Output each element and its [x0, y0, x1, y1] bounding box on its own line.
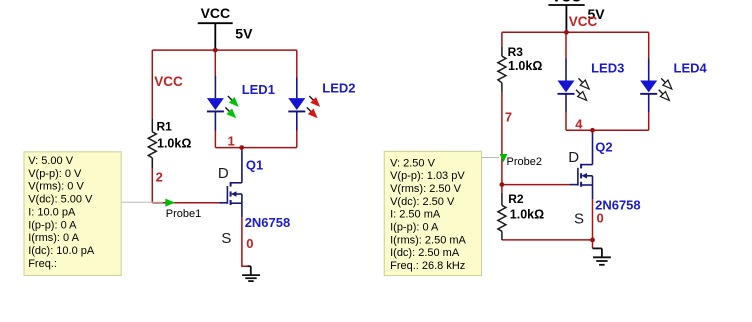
svg-text:Freq.:: Freq.:: [28, 258, 57, 270]
svg-text:Probe2: Probe2: [507, 156, 542, 168]
svg-text:0: 0: [246, 236, 253, 251]
svg-text:I(dc): 10.0 pA: I(dc): 10.0 pA: [28, 245, 95, 257]
svg-text:VCC: VCC: [201, 5, 231, 21]
svg-text:VCC: VCC: [552, 0, 582, 5]
svg-text:S: S: [574, 210, 584, 227]
svg-text:LED2: LED2: [322, 81, 355, 96]
svg-text:V(p-p): 1.03 pV: V(p-p): 1.03 pV: [390, 170, 465, 182]
svg-text:V: 2.50 V: V: 2.50 V: [390, 157, 436, 169]
svg-text:S: S: [221, 230, 231, 247]
svg-text:1.0kΩ: 1.0kΩ: [508, 59, 542, 73]
svg-text:LED1: LED1: [242, 82, 275, 97]
svg-text:I(p-p): 0 A: I(p-p): 0 A: [390, 222, 439, 234]
svg-text:7: 7: [505, 110, 512, 125]
svg-text:LED3: LED3: [591, 60, 624, 75]
svg-text:I: 2.50 mA: I: 2.50 mA: [390, 209, 441, 221]
svg-text:I(rms): 2.50 mA: I(rms): 2.50 mA: [390, 234, 466, 246]
svg-text:VCC: VCC: [154, 74, 183, 89]
svg-text:Q2: Q2: [595, 140, 612, 155]
svg-text:2N6758: 2N6758: [245, 215, 291, 230]
svg-text:LED4: LED4: [674, 60, 708, 75]
svg-text:I(dc): 2.50 mA: I(dc): 2.50 mA: [390, 247, 460, 259]
svg-text:0: 0: [597, 211, 604, 226]
svg-text:Q1: Q1: [246, 158, 263, 173]
svg-text:D: D: [218, 165, 229, 182]
svg-text:I: 10.0 pA: I: 10.0 pA: [28, 206, 76, 218]
svg-text:V(p-p): 0 V: V(p-p): 0 V: [28, 168, 82, 180]
svg-text:2: 2: [156, 169, 163, 184]
svg-text:D: D: [568, 149, 579, 166]
svg-text:V(rms): 2.50 V: V(rms): 2.50 V: [390, 183, 462, 195]
svg-text:V(dc): 2.50 V: V(dc): 2.50 V: [390, 196, 455, 208]
svg-text:5V: 5V: [235, 26, 253, 42]
svg-text:Probe1: Probe1: [166, 208, 201, 220]
svg-text:4: 4: [575, 117, 583, 132]
svg-text:Freq.: 26.8 kHz: Freq.: 26.8 kHz: [390, 260, 465, 272]
svg-text:R1: R1: [157, 120, 173, 134]
svg-text:V(rms): 0 V: V(rms): 0 V: [28, 181, 84, 193]
svg-text:1.0kΩ: 1.0kΩ: [510, 208, 544, 222]
svg-text:VCC: VCC: [569, 14, 598, 29]
svg-text:R3: R3: [508, 45, 524, 59]
svg-text:1: 1: [228, 133, 235, 148]
svg-text:R2: R2: [508, 192, 524, 206]
svg-text:I(rms): 0 A: I(rms): 0 A: [28, 232, 79, 244]
svg-text:1.0kΩ: 1.0kΩ: [157, 137, 191, 151]
svg-text:I(p-p): 0 A: I(p-p): 0 A: [28, 219, 77, 231]
svg-text:V(dc): 5.00 V: V(dc): 5.00 V: [28, 194, 93, 206]
svg-text:V: 5.00 V: V: 5.00 V: [28, 155, 74, 167]
